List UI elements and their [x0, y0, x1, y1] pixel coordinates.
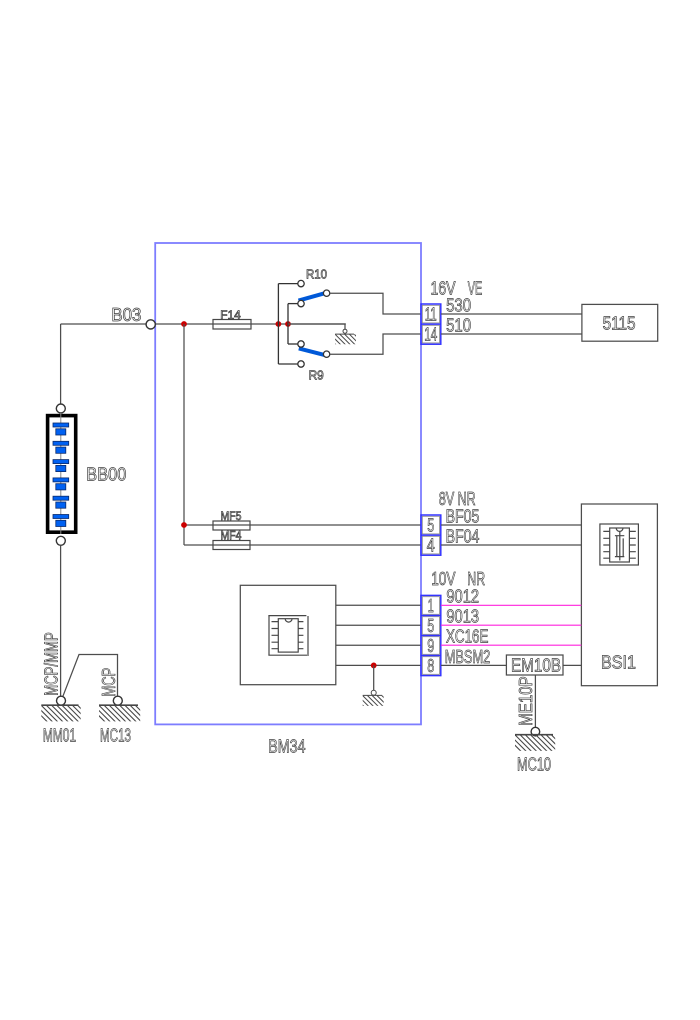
svg-text:MCP/MMP: MCP/MMP	[42, 632, 62, 696]
svg-text:R9: R9	[309, 368, 324, 383]
svg-text:510: 510	[446, 315, 471, 335]
svg-text:MF4: MF4	[221, 529, 242, 543]
wire relay inner branch vertical	[287, 304, 289, 344]
wire R9 output to pin 14	[330, 334, 421, 354]
svg-text:F14: F14	[220, 308, 241, 322]
frame BM34 control unit box	[155, 243, 421, 724]
IC U1 icon inside module	[268, 615, 308, 656]
svg-text:EM10B: EM10B	[511, 655, 561, 675]
svg-text:5: 5	[427, 516, 434, 536]
wire pin 4 to BSI1	[441, 544, 581, 546]
wire pin 5 to BSI1	[441, 524, 581, 526]
relay R9 contact output circle	[323, 351, 329, 357]
wire MBSM2 to EM10B	[441, 664, 506, 666]
wire to R9 coil terminal	[278, 363, 297, 365]
wire ground bridge MM01 to MC13	[63, 655, 118, 697]
ground MM01	[31, 696, 94, 722]
relay R9 coil terminal circle	[298, 361, 304, 367]
svg-text:4: 4	[427, 536, 435, 556]
junction node at main wire	[181, 321, 187, 327]
wire MF5 feed	[184, 524, 421, 526]
svg-text:B03: B03	[111, 305, 141, 325]
svg-text:MC10: MC10	[517, 754, 551, 774]
wire XC16E to BSI1 (magenta)	[441, 644, 581, 646]
box electronic module in BM34	[240, 585, 335, 684]
svg-text:9: 9	[427, 636, 434, 656]
wire 9012 to BSI1 (magenta)	[441, 604, 581, 606]
svg-text:1: 1	[428, 596, 434, 616]
wire junction vertical to MF fuses	[183, 324, 185, 545]
svg-text:BSI1: BSI1	[601, 653, 636, 673]
wire module out 2	[336, 624, 421, 626]
wire pin 14 to 5115	[441, 333, 582, 335]
svg-text:9012: 9012	[446, 587, 479, 607]
node B03 terminal circle	[146, 320, 155, 329]
relay R10 coil terminal circle	[298, 280, 304, 286]
svg-text:530: 530	[446, 296, 471, 316]
wire 9013 to BSI1 (magenta)	[441, 624, 581, 626]
wire EM10B to ground MC10	[534, 675, 536, 727]
relay R10 contact input circle	[298, 300, 304, 306]
wire R10 output to pin 11	[330, 293, 421, 314]
svg-text:BM34: BM34	[268, 737, 305, 757]
box 5115	[582, 304, 658, 341]
node junction pin8 wire	[371, 663, 377, 669]
wire B03 feed to battery top	[61, 323, 147, 325]
connector pins 11/14 group	[421, 304, 441, 345]
wire relay left branch vertical	[277, 284, 279, 364]
wire module out 4	[336, 664, 421, 666]
wire relay common to ground	[288, 324, 345, 329]
svg-text:XC16E: XC16E	[446, 627, 488, 647]
svg-text:11: 11	[425, 305, 437, 325]
ground (BM34 internal)	[353, 690, 394, 707]
svg-text:14: 14	[424, 325, 437, 345]
wire module out 3	[336, 644, 421, 646]
BSI1 internal IC icon	[600, 524, 639, 565]
wire battery to ground MM01	[60, 545, 62, 696]
svg-text:5115: 5115	[603, 314, 636, 334]
svg-text:MBSM2: MBSM2	[445, 647, 491, 667]
node junction relay common	[285, 321, 291, 327]
svg-text:9013: 9013	[446, 607, 479, 627]
svg-text:5: 5	[427, 616, 434, 636]
ground MC13	[89, 696, 152, 722]
svg-text:ME10P: ME10P	[516, 676, 536, 726]
wire main into BM34 through F14	[155, 323, 345, 325]
wire MF4 feed	[184, 544, 421, 546]
connector pins 1/5/9/8 group	[421, 595, 441, 676]
svg-text:MF5: MF5	[221, 509, 242, 523]
svg-text:8: 8	[427, 656, 434, 676]
ground (relay common)	[326, 329, 367, 346]
box EM10B splice	[506, 655, 563, 675]
wire to R9 contact input	[288, 343, 298, 345]
svg-text:MC13: MC13	[100, 725, 131, 745]
wire pin 11 to 5115	[441, 313, 582, 315]
wire EM10B to BSI1	[563, 664, 581, 666]
svg-text:BB00: BB00	[86, 465, 126, 485]
wire junction to internal ground	[373, 665, 375, 690]
box BSI1	[581, 504, 657, 686]
connector pins 5/4 group	[421, 515, 441, 556]
wire to R10 coil terminal	[278, 283, 297, 285]
svg-text:BF05: BF05	[446, 507, 480, 527]
fuse MF4	[213, 541, 250, 550]
battery BB00	[48, 404, 76, 545]
fuse MF5	[213, 521, 250, 530]
relay switch R10 arm	[299, 293, 325, 300]
relay R9 contact input circle	[298, 341, 304, 347]
node junction MF5	[181, 522, 187, 528]
node junction F14 out	[276, 321, 282, 327]
ground MC10	[505, 727, 568, 751]
svg-text:MCP: MCP	[99, 668, 119, 697]
wire module out 1	[336, 604, 421, 606]
fuse F14	[213, 320, 251, 330]
wire vertical down-left to battery	[60, 324, 62, 404]
wire to R10 contact input	[288, 303, 298, 305]
svg-text:R10: R10	[306, 267, 327, 282]
svg-text:BF04: BF04	[446, 527, 480, 547]
relay R10 contact output circle	[323, 290, 329, 296]
relay switch R9 arm	[299, 348, 325, 355]
svg-text:MM01: MM01	[43, 725, 76, 745]
